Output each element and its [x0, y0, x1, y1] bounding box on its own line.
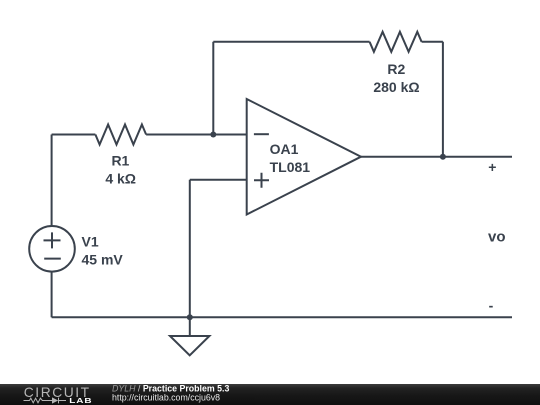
CircuitLab logo lead to LAB [59, 400, 66, 402]
svg-text:vo: vo [488, 229, 506, 246]
svg-text:OA1: OA1 [270, 141, 299, 157]
CircuitLab logo diode triangle [52, 397, 58, 403]
wire V1 bottom [51, 272, 53, 318]
wire non-inverting input horizontal [190, 179, 247, 181]
op-amp U1 triangle [247, 99, 361, 215]
wire ground stub [189, 317, 191, 336]
svg-text:V1: V1 [82, 233, 99, 249]
op-amp inverting input marker [254, 133, 269, 135]
wire feedback vertical right down to output [442, 42, 444, 157]
voltage source V1 plus marker [44, 232, 61, 248]
CircuitLab logo resistor squiggle [24, 398, 67, 404]
svg-text:http://circuitlab.com/ccju6v8: http://circuitlab.com/ccju6v8 [112, 393, 220, 403]
wire bottom rail [52, 316, 512, 318]
svg-text:LAB: LAB [69, 397, 92, 405]
wire feedback top horizontal [213, 41, 369, 43]
ground [170, 336, 209, 355]
voltage source V1 minus marker [44, 258, 61, 260]
svg-text:TL081: TL081 [270, 159, 311, 175]
resistor R2 [370, 32, 422, 52]
svg-text:R2: R2 [387, 61, 405, 77]
svg-text:4 kΩ: 4 kΩ [105, 171, 136, 187]
node junction dot at output [440, 154, 446, 160]
wire R2 to right corner [422, 41, 443, 43]
op-amp non-inverting input marker [254, 173, 269, 188]
svg-text:-: - [489, 298, 494, 314]
wire left horizontal from V1 branch to R1 [52, 134, 96, 136]
svg-text:280 kΩ: 280 kΩ [373, 79, 419, 95]
resistor R1 [95, 125, 146, 145]
wire op-amp output [361, 156, 512, 158]
wire non-inverting input vertical to ground net [189, 180, 191, 317]
node junction dot at ground rail [187, 314, 193, 320]
wire R1 to op-amp inverting input [146, 134, 247, 136]
wire V1 top [51, 135, 53, 227]
wire feedback vertical left [212, 42, 214, 135]
footer bar [0, 384, 540, 405]
svg-text:R1: R1 [111, 153, 129, 169]
svg-text:45 mV: 45 mV [82, 252, 124, 268]
voltage source V1 circle [29, 226, 75, 272]
node junction dot at R1 / feedback [210, 132, 216, 138]
svg-text:+: + [488, 159, 496, 175]
CircuitLab logo diode bar [58, 398, 60, 404]
